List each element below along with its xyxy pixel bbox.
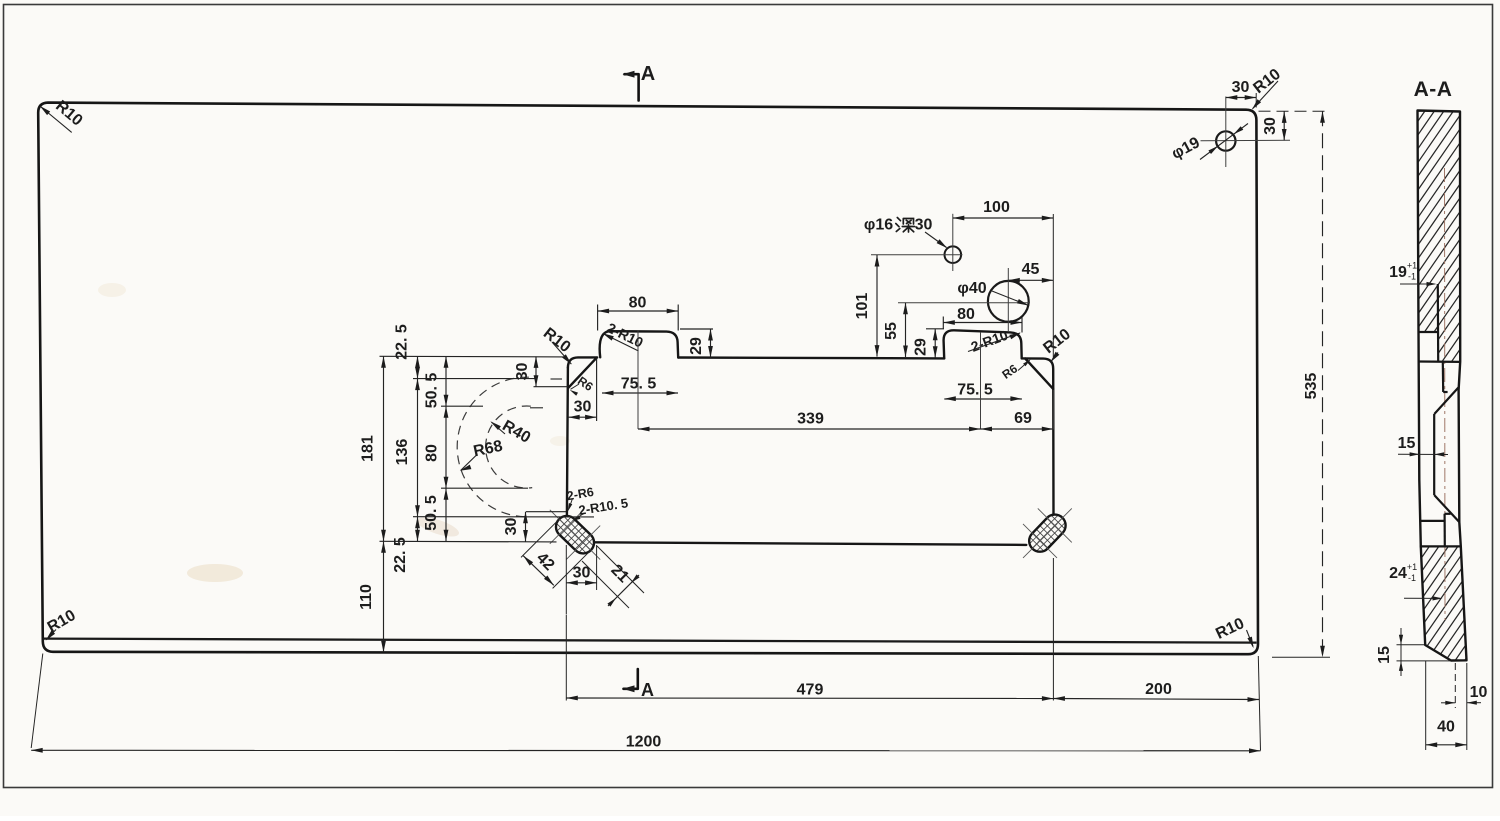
svg-text:19: 19: [1389, 264, 1407, 281]
svg-text:69: 69: [1014, 410, 1032, 427]
svg-text:181: 181: [360, 435, 377, 462]
svg-text:+1: +1: [1407, 562, 1417, 572]
svg-text:30: 30: [915, 217, 933, 234]
svg-text:15: 15: [1376, 646, 1393, 664]
svg-text:50. 5: 50. 5: [423, 495, 440, 531]
svg-text:479: 479: [797, 682, 824, 699]
svg-text:80: 80: [424, 444, 441, 462]
svg-text:24: 24: [1389, 565, 1407, 582]
svg-text:22. 5: 22. 5: [392, 537, 409, 573]
svg-text:30: 30: [574, 399, 592, 416]
svg-text:30: 30: [503, 518, 520, 536]
svg-text:45: 45: [1022, 261, 1040, 278]
svg-text:50. 5: 50. 5: [424, 373, 441, 409]
svg-text:75. 5: 75. 5: [621, 376, 657, 393]
svg-text:75. 5: 75. 5: [957, 382, 993, 399]
svg-text:55: 55: [883, 322, 900, 340]
svg-text:10: 10: [1470, 684, 1488, 701]
svg-text:80: 80: [957, 306, 975, 323]
svg-text:30: 30: [1232, 79, 1250, 96]
svg-text:22. 5: 22. 5: [394, 324, 411, 360]
svg-text:40: 40: [1437, 719, 1455, 736]
svg-text:A: A: [641, 63, 655, 85]
svg-text:30: 30: [1262, 117, 1279, 135]
svg-text:A-A: A-A: [1414, 78, 1453, 101]
svg-text:φ16: φ16: [864, 217, 893, 234]
svg-text:110: 110: [358, 584, 375, 610]
svg-text:29: 29: [688, 337, 705, 355]
svg-text:136: 136: [394, 439, 411, 466]
svg-text:100: 100: [983, 199, 1010, 216]
svg-text:200: 200: [1145, 681, 1172, 698]
svg-text:φ40: φ40: [957, 280, 986, 297]
svg-text:-1: -1: [1408, 272, 1416, 282]
svg-text:15: 15: [1398, 435, 1416, 452]
svg-text:339: 339: [797, 411, 824, 428]
svg-text:535: 535: [1303, 373, 1320, 400]
svg-text:29: 29: [913, 338, 930, 356]
svg-text:+1: +1: [1407, 261, 1417, 271]
svg-text:30: 30: [514, 363, 531, 381]
svg-text:-1: -1: [1408, 573, 1416, 583]
svg-text:A: A: [641, 680, 654, 700]
svg-text:101: 101: [854, 293, 871, 320]
svg-text:80: 80: [629, 295, 647, 312]
svg-text:1200: 1200: [626, 734, 662, 751]
